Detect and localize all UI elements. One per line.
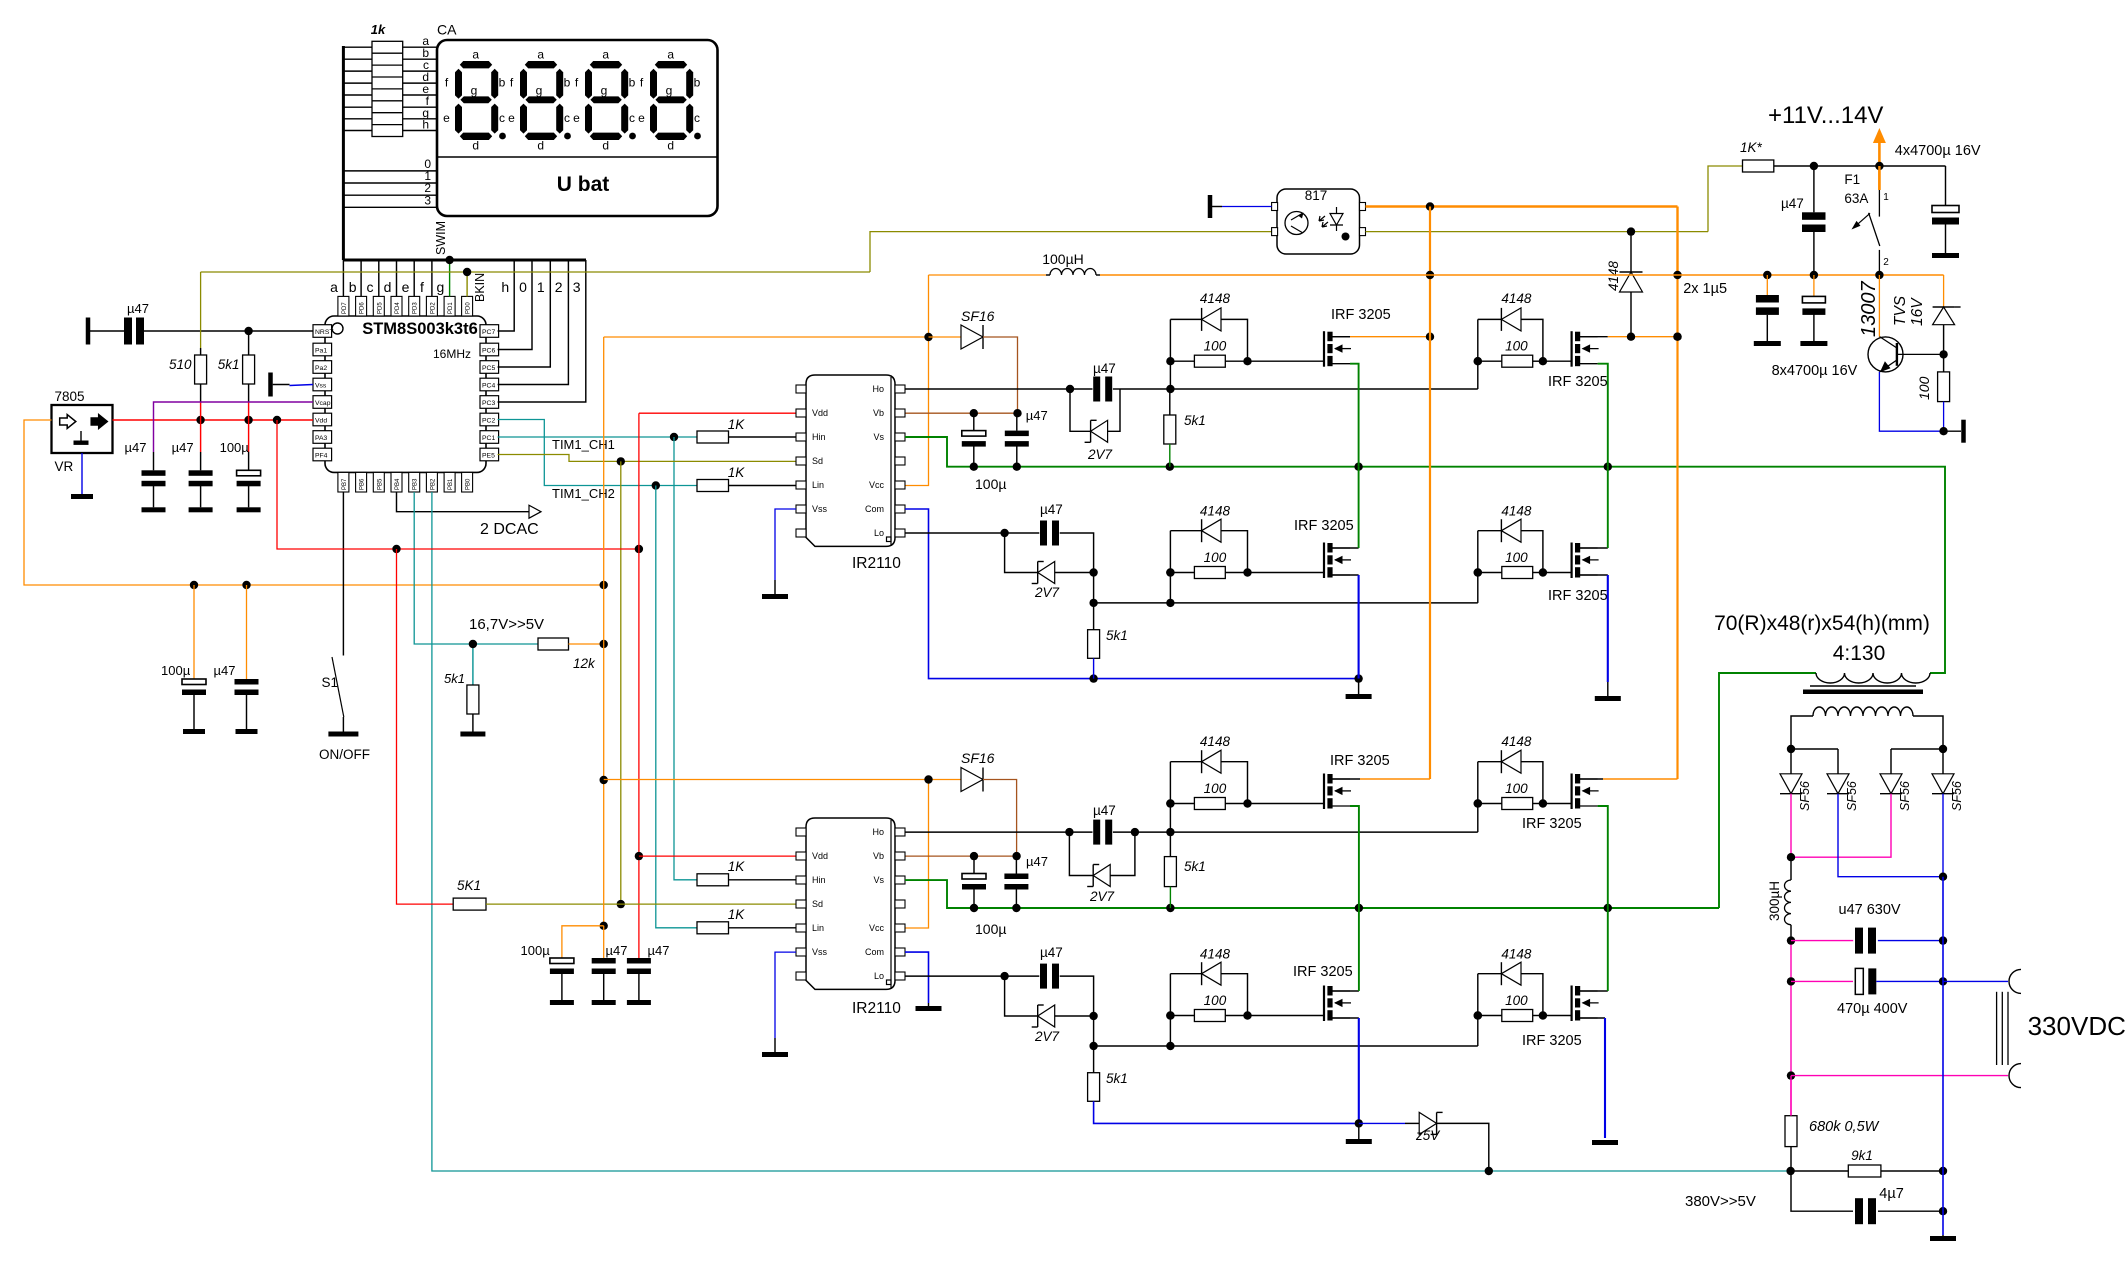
wire Vss lead <box>273 384 290 386</box>
wire 8x4700 gnd <box>1813 309 1815 341</box>
svg-text:100: 100 <box>1916 376 1932 400</box>
wire SF56-4 anode <box>1942 749 1944 774</box>
junction top node <box>1810 162 1884 170</box>
ground cap <box>189 507 213 512</box>
wire Q7 rect left <box>1170 973 1201 975</box>
wire Ho1 snub row right <box>1113 388 1120 390</box>
wire segment row g right <box>403 118 437 120</box>
wire 1K to Hin1 <box>729 436 797 438</box>
wire 2x1u5 stem <box>1766 275 1768 295</box>
wire bootcap stem <box>973 413 975 430</box>
svg-text:TIM1_CH1: TIM1_CH1 <box>552 437 615 452</box>
wire 1K to Lin2 <box>729 927 797 929</box>
junction 12k orange <box>600 640 608 648</box>
power arrow +11V...14V <box>1768 102 1886 190</box>
ground cap <box>236 729 258 734</box>
wire cap gnd <box>603 974 605 1001</box>
capacitor decoupling 100u <box>550 958 574 974</box>
wire 12k to orange <box>569 643 604 645</box>
svg-text:1k: 1k <box>371 22 386 37</box>
wire Q2 vert <box>1477 319 1479 389</box>
svg-text:2x 1µ5: 2x 1µ5 <box>1683 281 1727 297</box>
svg-text:817: 817 <box>1305 188 1328 203</box>
wire 470u magenta <box>1791 980 1853 982</box>
wire Q5 res right <box>1225 803 1247 805</box>
wire 4x4700 gnd stem <box>1945 225 1947 254</box>
junction Q2 gate <box>1474 357 1482 365</box>
svg-text:Vss: Vss <box>812 504 828 514</box>
wire Q1 res right <box>1225 360 1247 362</box>
capacitor 470u 400V <box>1855 968 1876 994</box>
display bus horizontal <box>343 259 586 262</box>
svg-text:1K: 1K <box>728 907 746 922</box>
transistor Q2 IRF 3205 <box>1572 331 1599 367</box>
resistor 5k1 Lo2 <box>1088 1073 1100 1102</box>
svg-text:Sd: Sd <box>812 899 823 909</box>
junction Q1 <box>1166 357 1252 365</box>
svg-text:PB4: PB4 <box>395 478 401 490</box>
wire Q6 rect right <box>1521 762 1543 804</box>
junction Ho2 gate col <box>1166 828 1174 836</box>
svg-text:SF16: SF16 <box>961 308 995 324</box>
svg-text:13007: 13007 <box>1858 281 1880 337</box>
svg-text:IRF 3205: IRF 3205 <box>1548 374 1608 390</box>
terminator 817 ground <box>1208 195 1213 218</box>
svg-text:e: e <box>402 279 410 295</box>
resistor 100 TVS <box>1938 372 1950 402</box>
ground Q4 <box>1595 696 1621 701</box>
wire 510 bottom red <box>200 402 202 420</box>
svg-text:SF56: SF56 <box>1950 781 1964 811</box>
wire plus terminal blue <box>1943 980 2008 982</box>
wire Q4 rect right <box>1521 531 1543 573</box>
7-seg digit 1 <box>508 48 571 153</box>
wire SWIM green to PD1 <box>449 260 451 296</box>
wire Ho2 to HB-B <box>1170 831 1477 833</box>
wire PC4 to display bus <box>498 260 569 385</box>
wire SF56-1 anode <box>1790 749 1792 774</box>
wire Q2 res right <box>1533 360 1543 362</box>
resistor 1K* <box>1743 160 1774 172</box>
wire Lo2 cap right <box>1060 976 1094 1016</box>
ground S1 <box>328 732 358 737</box>
svg-text:PD5: PD5 <box>377 302 383 314</box>
wire Q6 drain orange <box>1603 778 1678 780</box>
junction Lo2 snub <box>1000 972 1008 980</box>
svg-text:4148: 4148 <box>1501 504 1532 519</box>
wire Q5 rect left <box>1170 761 1201 763</box>
wire teal to Lin2 <box>656 486 697 928</box>
wire SF56-3 anode <box>1890 749 1892 774</box>
svg-text:CA: CA <box>437 22 457 38</box>
junction Q5 <box>1166 799 1252 807</box>
svg-text:100µ: 100µ <box>975 921 1006 937</box>
svg-text:TIM1_CH2: TIM1_CH2 <box>552 486 615 501</box>
svg-text:PD4: PD4 <box>395 302 401 314</box>
wire Q5 rect right <box>1221 762 1248 804</box>
wire cap to ground <box>153 486 155 507</box>
wire segment row e right <box>403 94 437 96</box>
svg-text:70(R)x48(r)x54(h)(mm): 70(R)x48(r)x54(h)(mm) <box>1714 612 1930 635</box>
wire Q7 source <box>1330 1017 1359 1019</box>
svg-text:µ47: µ47 <box>606 943 628 958</box>
junction SWIM <box>445 256 453 264</box>
wire Vss blue <box>290 385 314 386</box>
wire Q6 drain <box>1578 778 1603 780</box>
wire u47 630V magenta <box>1791 940 1853 942</box>
wire Q7 rect right <box>1221 974 1248 1016</box>
wire TVS to base node <box>1943 325 1945 355</box>
optocoupler U5 817 <box>1272 188 1366 254</box>
ground 2x1u5 <box>1754 341 1781 346</box>
junction Q8 gate <box>1474 1011 1482 1019</box>
wire Q1 drain orange <box>1350 336 1430 338</box>
transformer T1 core <box>1803 686 1923 694</box>
junction NRST 5k1 <box>244 327 252 335</box>
ground Q8 <box>1592 1140 1618 1145</box>
svg-text:b: b <box>349 279 357 295</box>
svg-text:Vcc: Vcc <box>869 923 885 933</box>
svg-text:PB7: PB7 <box>342 478 348 490</box>
svg-text:PF4: PF4 <box>315 453 328 460</box>
svg-text:PA3: PA3 <box>315 435 328 442</box>
wire Q1 source green <box>1350 364 1359 467</box>
svg-text:1K*: 1K* <box>1740 140 1763 155</box>
wire red branch down <box>277 420 639 549</box>
diode SF56-4 <box>1932 774 1954 794</box>
svg-text:100: 100 <box>1505 339 1528 354</box>
wire segment row g left <box>343 118 372 120</box>
wire orange caps2 stem <box>603 926 605 958</box>
resistor 9k1 <box>1848 1165 1881 1177</box>
wire Q7 vert <box>1169 974 1171 1046</box>
wire Q4 gnd stem <box>1607 682 1609 696</box>
wire Q5 res left <box>1170 803 1194 805</box>
wire SF16-1 brown <box>983 337 1018 413</box>
wire SF16-1 anode <box>929 336 962 338</box>
wire Q4 res right <box>1533 572 1543 574</box>
ground cap <box>592 1000 616 1005</box>
wire olive to PD0 BKIN <box>466 272 468 296</box>
transistor Q6 IRF 3205 <box>1572 774 1599 810</box>
svg-text:100: 100 <box>1505 550 1528 565</box>
svg-text:16,7V>>5V: 16,7V>>5V <box>469 616 544 633</box>
wire Ho2 cap right <box>1113 831 1171 833</box>
wire z5V blue <box>1359 1122 1405 1124</box>
wire bootcap stem <box>973 856 975 873</box>
wire z5V lead <box>1405 1122 1419 1124</box>
resistor 100 Q6 <box>1502 798 1533 810</box>
wire segment row b right <box>403 58 437 60</box>
svg-text:Com: Com <box>865 947 884 957</box>
capacitor bootstrap <box>1005 431 1029 447</box>
wire Q8 res left <box>1478 1015 1502 1017</box>
resistor 100 Q1 <box>1194 355 1225 367</box>
svg-text:Pa1: Pa1 <box>315 348 327 355</box>
cable symbol <box>1997 992 2008 1065</box>
junction red Vdd col <box>635 545 643 553</box>
wire cap stem orange <box>246 585 248 679</box>
wire Q6 gate <box>1543 803 1572 805</box>
wire 1K* out <box>1774 165 1946 167</box>
svg-text:100: 100 <box>1505 781 1528 796</box>
junction Q7 <box>1166 1011 1252 1019</box>
diode TVS 16V <box>1933 307 1961 325</box>
svg-text:PC3: PC3 <box>482 400 495 407</box>
svg-text:IRF 3205: IRF 3205 <box>1548 588 1608 604</box>
transformer T1 secondary <box>1813 707 1913 716</box>
wire orange caps2 left <box>562 926 604 958</box>
ground Q3 <box>1346 694 1372 699</box>
capacitor u47 Ho1 snub <box>1093 377 1112 402</box>
wire segment row h right <box>403 130 437 132</box>
svg-text:S1: S1 <box>321 675 338 690</box>
wire Q2 drain <box>1578 336 1608 338</box>
junction base node <box>1939 350 1947 358</box>
wire 13007 collector orange <box>1878 275 1880 337</box>
wire Q3 drain <box>1330 547 1359 549</box>
wire 5k1 Lo1 top <box>1093 603 1095 630</box>
junction Q3 gate <box>1166 568 1174 576</box>
resistor 100 Q2 <box>1502 355 1533 367</box>
zener 2V7 Lo2 <box>1032 1005 1055 1027</box>
ground Vss2 <box>762 1052 788 1057</box>
wire Q7 drain green <box>1358 908 1360 991</box>
resistor 1K Hin2 <box>697 874 729 886</box>
svg-text:µ47: µ47 <box>172 440 194 455</box>
wire Vcap stem black <box>153 452 155 470</box>
wire coil top lead <box>1790 857 1792 880</box>
junction orange rail <box>190 581 608 589</box>
junction magenta <box>1787 853 1795 861</box>
svg-text:1: 1 <box>537 279 545 295</box>
wire 4x4700 stem <box>1945 166 1947 206</box>
junction 4148v olive <box>1627 227 1635 235</box>
junction secondary <box>1787 745 1947 753</box>
diode 4148 vertical <box>1620 272 1643 292</box>
wire bus to PD3 <box>413 260 415 296</box>
wire 4u7 left <box>1791 1171 1853 1211</box>
wire segment row a right <box>403 46 437 48</box>
display module U bat <box>437 40 718 216</box>
svg-text:µ47: µ47 <box>1781 196 1804 211</box>
svg-text:PC4: PC4 <box>482 383 495 390</box>
svg-text:µ47: µ47 <box>1026 854 1048 869</box>
wire Lo1 node down <box>1093 573 1095 603</box>
svg-text:PD6: PD6 <box>360 302 366 314</box>
wire cap gnd <box>561 974 563 1001</box>
wire Ho1 <box>905 388 1070 390</box>
wire Vss2 stem <box>774 1038 776 1052</box>
svg-text:µ47: µ47 <box>1040 945 1063 960</box>
wire cap to ground <box>248 486 250 507</box>
wire Vs2 to primary <box>1719 673 1816 908</box>
junction Lo1 node <box>1089 568 1097 576</box>
svg-text:IRF 3205: IRF 3205 <box>1522 1033 1582 1049</box>
wire cap stem <box>248 452 250 470</box>
wire 1K to Lin1 <box>729 485 797 487</box>
wire cap gnd <box>638 974 640 1001</box>
svg-text:16V: 16V <box>1909 297 1926 326</box>
wire bootcap bottom <box>973 446 975 467</box>
junction Lo2 gate col <box>1166 1042 1174 1050</box>
terminator Vss <box>268 373 273 397</box>
svg-text:Ho: Ho <box>872 827 884 837</box>
svg-text:h: h <box>422 118 429 132</box>
capacitor decoupling u47 <box>592 958 616 974</box>
svg-text:3: 3 <box>573 279 581 295</box>
wire coil bottom lead <box>1790 925 1792 941</box>
svg-text:h: h <box>501 279 509 295</box>
wire Q2 drain orange <box>1608 336 1678 338</box>
diode 4148 Q2 <box>1501 308 1521 331</box>
svg-text:4148: 4148 <box>1501 734 1532 749</box>
svg-text:63A: 63A <box>1844 191 1868 206</box>
wire 2x1u5 gnd <box>1766 315 1768 341</box>
wire 470u blue <box>1876 980 1943 982</box>
svg-text:1K: 1K <box>728 859 746 874</box>
ground 8x4700u <box>1800 341 1827 346</box>
svg-text:c: c <box>367 279 374 295</box>
wire orange column <box>603 337 605 926</box>
wire bootcap bottom <box>973 889 975 908</box>
wire 9k1 left <box>1791 1170 1848 1172</box>
wire digit select 1 <box>343 182 437 184</box>
wire inductor lead left <box>1046 274 1050 276</box>
junction Com1 gnd <box>1354 674 1362 682</box>
wire 817 out olive <box>1366 231 1709 233</box>
wire u47 bottom stem <box>1813 232 1815 275</box>
svg-text:1K: 1K <box>728 417 746 432</box>
wire Sd column olive <box>620 461 622 904</box>
terminator supply ground <box>1961 420 1966 443</box>
wire Q7 gnd stem <box>1358 1123 1360 1139</box>
wire red Vdd1 <box>639 412 796 414</box>
wire Q4 rect left <box>1478 530 1502 532</box>
capacitor 4u7 <box>1855 1198 1876 1224</box>
wire TIM1_CH1 teal <box>498 436 697 438</box>
junction Lo2 node <box>1089 1012 1097 1020</box>
transistor Q9 13007 <box>1868 337 1944 373</box>
wire bus to PD6 <box>360 260 362 296</box>
svg-text:PD0: PD0 <box>466 302 472 314</box>
junction Lo1 gate row <box>1089 599 1097 607</box>
wire Vss1 blue <box>775 509 796 580</box>
junction TIM1_CH2 <box>652 481 660 489</box>
wire 680k bottom <box>1790 1147 1792 1171</box>
wire 510 top lead <box>200 348 202 355</box>
resistor 5k1 sense <box>467 685 479 714</box>
wire gnd lead <box>1944 430 1961 432</box>
svg-text:IRF 3205: IRF 3205 <box>1294 518 1354 534</box>
wire olive bus top <box>201 271 870 273</box>
svg-text:SWIM: SWIM <box>434 221 448 255</box>
resistor 1K Lin2 <box>697 922 729 934</box>
wire bridge top left <box>1791 748 1838 750</box>
diode SF56-2 <box>1827 774 1849 794</box>
wire orange vertical 1677 <box>1676 275 1678 779</box>
svg-text:4148: 4148 <box>1200 734 1231 749</box>
wire minus magenta <box>1791 1075 2008 1077</box>
svg-text:PB2: PB2 <box>430 478 436 490</box>
wire secondary right <box>1913 716 1943 749</box>
wire F1 stub1 <box>1878 166 1880 190</box>
wire digit select 0 <box>343 170 437 172</box>
ground cap <box>627 1000 651 1005</box>
svg-text:µ47: µ47 <box>1093 803 1116 818</box>
svg-text:z5V: z5V <box>1415 1128 1441 1143</box>
resistor 1K Lin1 <box>697 480 729 492</box>
zener z5V <box>1419 1112 1442 1134</box>
wire Q7 res right <box>1225 1015 1247 1017</box>
junction Vb1 <box>970 409 1022 417</box>
svg-text:470µ 400V: 470µ 400V <box>1837 1001 1908 1017</box>
wire 5k1 Lo2 blue <box>1094 1101 1359 1123</box>
wire 4148v top <box>1630 232 1632 272</box>
junction u47 630V <box>1939 936 1947 944</box>
wire Q3 gnd stem <box>1358 679 1360 694</box>
wire Q3 res left <box>1170 572 1194 574</box>
svg-text:5k1: 5k1 <box>1106 628 1128 643</box>
wire Ho2 left drop <box>1069 832 1093 875</box>
wire Q8 rect left <box>1478 973 1502 975</box>
svg-text:4148: 4148 <box>1200 504 1231 519</box>
junction thick orange 1430 <box>1426 202 1434 210</box>
svg-text:Vb: Vb <box>873 851 884 861</box>
svg-text:1K: 1K <box>728 465 746 480</box>
wire Lo1 gate row <box>1094 602 1478 604</box>
transistor Q4 IRF 3205 <box>1572 543 1599 579</box>
svg-text:Vs: Vs <box>873 432 884 442</box>
junction Q6 <box>1474 799 1548 807</box>
wire 7805 ground <box>81 453 83 494</box>
svg-text:4148: 4148 <box>1200 291 1231 306</box>
svg-text:IRF 3205: IRF 3205 <box>1330 753 1390 769</box>
wire SF56-1 magenta <box>1790 794 1792 858</box>
capacitor u47 Vdd <box>142 470 166 486</box>
svg-text:SF16: SF16 <box>961 750 995 766</box>
resistor 100 Q7 <box>1194 1010 1225 1022</box>
zener 2V7 Ho2 <box>1087 865 1110 887</box>
wire cap stem red <box>248 420 250 452</box>
wire u47 630V blue <box>1878 940 1943 942</box>
svg-text:Vdd: Vdd <box>315 418 327 425</box>
svg-text:g: g <box>437 279 445 295</box>
fuse F1 63A <box>1844 172 1889 275</box>
svg-text:5k1: 5k1 <box>1184 413 1206 428</box>
svg-text:2: 2 <box>555 279 563 295</box>
wire PB7 to S1 <box>342 492 344 656</box>
wire segment row c right <box>403 70 437 72</box>
wire 510 bottom <box>200 384 202 402</box>
wire Q8 drain <box>1578 990 1608 992</box>
wire Q8 res right <box>1533 1015 1543 1017</box>
wire 8x4700 stem <box>1813 275 1815 296</box>
wire cap to ground <box>246 695 248 730</box>
ground below 7805 <box>71 494 93 499</box>
wire bootcap stem <box>1015 856 1017 873</box>
svg-text:2V7: 2V7 <box>1034 1029 1060 1044</box>
wire inductor lead right <box>1096 274 1100 276</box>
svg-text:Vss: Vss <box>812 947 828 957</box>
wire Lo2 gate row <box>1094 1045 1478 1047</box>
wire 13007 emitter blue <box>1879 372 1943 431</box>
MCU top pins PD7-PD0 <box>338 296 473 316</box>
junction blue bridge <box>1939 873 1947 881</box>
junction Sd column <box>617 457 625 465</box>
svg-text:5K1: 5K1 <box>457 878 481 893</box>
transistor Q8 IRF 3205 <box>1572 986 1599 1022</box>
